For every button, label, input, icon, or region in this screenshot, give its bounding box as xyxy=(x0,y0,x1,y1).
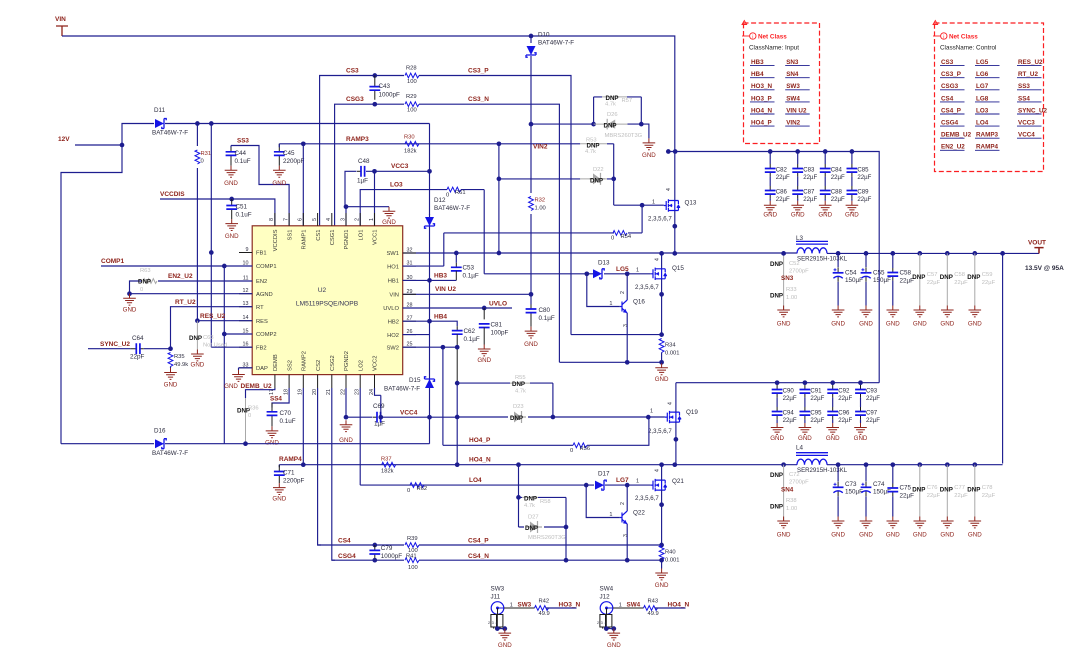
svg-text:R63: R63 xyxy=(140,268,151,274)
svg-text:D15: D15 xyxy=(409,377,421,384)
capacitor C85 xyxy=(851,152,853,165)
svg-text:1µF: 1µF xyxy=(357,178,368,185)
ground C63 branch xyxy=(191,350,204,361)
pin 21 CSG2 xyxy=(331,375,333,388)
ground C71 xyxy=(273,483,286,494)
svg-text:R62: R62 xyxy=(417,486,428,492)
svg-text:HO3_N: HO3_N xyxy=(559,601,581,608)
diode D15 xyxy=(425,379,434,388)
capacitor C58 xyxy=(892,253,894,268)
svg-text:HB4: HB4 xyxy=(434,314,447,321)
svg-text:GND: GND xyxy=(272,496,286,503)
svg-text:4: 4 xyxy=(668,402,674,405)
wire Q16 emitter xyxy=(626,313,628,362)
svg-text:VIN U2: VIN U2 xyxy=(435,286,456,293)
wire HO1 xyxy=(403,233,444,266)
diode D17 xyxy=(595,481,604,490)
svg-text:2200pF: 2200pF xyxy=(283,478,305,485)
wire CS3_N to R34 xyxy=(559,361,661,363)
svg-text:D26: D26 xyxy=(607,112,618,118)
svg-text:VOUT: VOUT xyxy=(1028,240,1046,247)
svg-text:R29: R29 xyxy=(406,94,417,100)
ground C77 branch xyxy=(941,517,954,528)
svg-text:C93: C93 xyxy=(866,388,878,395)
wire CSG2 to CSG4 xyxy=(332,388,335,560)
svg-text:RAMP4: RAMP4 xyxy=(279,456,302,463)
svg-text:1: 1 xyxy=(636,479,639,485)
svg-text:C97: C97 xyxy=(866,410,878,417)
svg-text:C95: C95 xyxy=(810,410,822,417)
svg-text:1: 1 xyxy=(650,409,653,415)
svg-text:GND: GND xyxy=(854,435,868,442)
svg-text:DNP: DNP xyxy=(138,279,151,286)
svg-text:22µF: 22µF xyxy=(927,493,941,499)
svg-text:D22: D22 xyxy=(593,167,604,173)
ground C72 branch xyxy=(777,517,790,528)
pin 5 CS1 xyxy=(317,213,319,226)
ground R34 xyxy=(655,363,668,374)
svg-text:2,3,5,6,7: 2,3,5,6,7 xyxy=(635,284,659,291)
svg-text:VCC3: VCC3 xyxy=(1018,120,1035,127)
pin 15 COMP2 xyxy=(239,333,252,335)
ground PGND2 xyxy=(340,420,353,431)
ground C76 branch xyxy=(914,517,927,528)
capacitor C44 xyxy=(230,146,232,166)
svg-text:GND: GND xyxy=(382,219,396,226)
svg-text:100: 100 xyxy=(407,108,417,114)
svg-text:C51: C51 xyxy=(236,204,248,211)
capacitor C48 xyxy=(357,170,365,172)
svg-text:CS4_P: CS4_P xyxy=(468,538,489,545)
ground D26 xyxy=(643,138,656,149)
wire VOUT tie to L4 output xyxy=(1002,253,1004,463)
wire RAMP2 to RAMP4 xyxy=(302,388,304,465)
svg-text:1: 1 xyxy=(510,603,513,609)
ground C44 xyxy=(225,166,238,177)
svg-text:C58: C58 xyxy=(954,272,965,278)
svg-text:4.7k: 4.7k xyxy=(524,503,535,509)
svg-text:GND: GND xyxy=(818,212,832,219)
svg-text:CS3_P: CS3_P xyxy=(941,71,961,78)
svg-text:GND: GND xyxy=(763,212,777,219)
wire VCC1 pin xyxy=(374,171,376,226)
ground C75 xyxy=(887,517,900,528)
capacitor C87 xyxy=(797,177,799,186)
svg-text:GND: GND xyxy=(655,376,669,383)
svg-text:Net Class: Net Class xyxy=(758,34,787,41)
svg-text:J11: J11 xyxy=(491,594,501,601)
capacitor C45 xyxy=(278,144,280,166)
svg-text:R57: R57 xyxy=(622,98,633,104)
ground C51 xyxy=(225,219,238,230)
svg-text:CSG3: CSG3 xyxy=(941,83,959,90)
svg-text:12V: 12V xyxy=(58,136,70,143)
DNP capacitor C58 xyxy=(946,253,948,305)
svg-text:R61: R61 xyxy=(455,190,466,196)
DNP capacitor C72 / SN4 / DNP R38 branch xyxy=(783,465,785,521)
wire Q13 drain xyxy=(674,152,676,201)
svg-text:C58: C58 xyxy=(900,270,912,277)
svg-text:32: 32 xyxy=(407,248,413,254)
svg-text:21: 21 xyxy=(326,389,332,395)
svg-text:C53: C53 xyxy=(463,265,475,272)
svg-text:C81: C81 xyxy=(491,322,503,329)
svg-text:C75: C75 xyxy=(900,485,912,492)
svg-text:4: 4 xyxy=(666,188,672,191)
svg-text:GND: GND xyxy=(826,435,840,442)
svg-text:22pF: 22pF xyxy=(130,354,145,361)
svg-text:SS1: SS1 xyxy=(287,230,293,241)
svg-text:VCC1: VCC1 xyxy=(373,230,379,245)
svg-text:DNP: DNP xyxy=(967,274,980,281)
svg-text:EN2_U2: EN2_U2 xyxy=(941,144,965,151)
svg-text:VCC4: VCC4 xyxy=(400,410,418,417)
svg-text:1000pF: 1000pF xyxy=(381,553,403,560)
svg-text:Q22: Q22 xyxy=(633,510,645,517)
diode D13 xyxy=(484,190,593,274)
svg-text:R28: R28 xyxy=(406,66,417,72)
net HO3_N xyxy=(546,607,577,609)
wire DEMB / DNP R36 xyxy=(246,388,275,398)
capacitor C54 xyxy=(837,253,839,267)
wire AGND xyxy=(130,293,253,295)
svg-text:22µF: 22µF xyxy=(838,395,852,402)
pin 4 CSG1 xyxy=(331,213,333,226)
svg-text:HB2: HB2 xyxy=(388,319,399,325)
pin 27 HB2 xyxy=(403,320,416,322)
DNP capacitor C57 xyxy=(919,253,921,305)
svg-text:3: 3 xyxy=(492,621,494,625)
diode D12 xyxy=(429,214,431,215)
svg-text:GND: GND xyxy=(642,152,656,159)
svg-text:C80: C80 xyxy=(539,307,551,314)
capacitor C81 xyxy=(483,308,485,319)
diode D16 xyxy=(155,439,164,448)
ground C52 branch xyxy=(777,306,790,317)
wire VOUT bus xyxy=(827,247,1039,253)
svg-text:LO3: LO3 xyxy=(390,182,403,189)
resistor R35 xyxy=(168,353,173,367)
wire PGND1 xyxy=(345,207,389,226)
resistor R62 xyxy=(410,483,424,488)
svg-text:VCC2: VCC2 xyxy=(373,356,379,371)
svg-text:R43: R43 xyxy=(648,598,659,604)
svg-text:24: 24 xyxy=(369,389,375,395)
capacitor C93 xyxy=(860,383,862,385)
svg-text:LG6: LG6 xyxy=(976,71,989,78)
capacitor C86 xyxy=(769,177,771,186)
svg-text:2: 2 xyxy=(620,291,626,294)
svg-text:ClassName: Input: ClassName: Input xyxy=(749,45,799,52)
svg-text:C45: C45 xyxy=(283,150,295,157)
svg-text:CS3: CS3 xyxy=(346,68,359,75)
svg-text:DNP: DNP xyxy=(912,487,925,494)
svg-text:GND: GND xyxy=(524,341,538,348)
svg-text:DNP: DNP xyxy=(770,504,783,511)
svg-text:C52: C52 xyxy=(789,261,800,267)
resistor R32 xyxy=(529,197,534,211)
svg-text:C79: C79 xyxy=(381,545,393,552)
svg-text:22µF: 22µF xyxy=(783,395,797,402)
wire L4 output bus xyxy=(827,464,1003,466)
svg-text:COMP1: COMP1 xyxy=(256,264,277,270)
svg-text:0.1uF: 0.1uF xyxy=(280,418,296,425)
svg-text:3: 3 xyxy=(340,218,346,221)
resistor R28 xyxy=(405,73,419,78)
svg-text:D11: D11 xyxy=(154,107,166,114)
svg-text:7: 7 xyxy=(283,218,289,221)
svg-text:SW3: SW3 xyxy=(518,602,532,609)
svg-text:19: 19 xyxy=(298,389,304,395)
svg-text:1: 1 xyxy=(652,200,655,206)
svg-text:DNP: DNP xyxy=(967,487,980,494)
svg-text:GND: GND xyxy=(770,435,784,442)
svg-text:R30: R30 xyxy=(404,135,415,141)
svg-text:LO3: LO3 xyxy=(976,107,989,114)
svg-text:SN3: SN3 xyxy=(786,59,799,66)
svg-text:RAMP4: RAMP4 xyxy=(976,144,999,151)
svg-text:HB3: HB3 xyxy=(434,273,447,280)
svg-text:GND: GND xyxy=(940,532,954,539)
svg-text:LO1: LO1 xyxy=(358,230,364,241)
svg-text:GND: GND xyxy=(777,321,791,328)
resistor R31 xyxy=(196,124,198,321)
capacitor C96 xyxy=(832,398,834,407)
svg-text:C89: C89 xyxy=(857,189,869,196)
svg-text:D27: D27 xyxy=(528,515,539,521)
svg-text:BAT46W-7-F: BAT46W-7-F xyxy=(434,205,470,212)
pin DAP ground xyxy=(239,368,253,370)
svg-text:DNP: DNP xyxy=(604,123,617,130)
svg-text:CSG4: CSG4 xyxy=(338,553,356,560)
DNP capacitor C52 / SN3 / DNP R33 branch xyxy=(783,253,785,310)
svg-text:VCCDIS: VCCDIS xyxy=(160,191,185,198)
DNP capacitor C76 xyxy=(919,465,921,517)
pin 25 SW2 xyxy=(403,346,416,348)
DNP diode D26 xyxy=(531,97,649,138)
pin 29 VIN xyxy=(403,293,416,295)
svg-text:1000pF: 1000pF xyxy=(379,92,401,99)
wire D27 to CS4_N xyxy=(565,527,567,560)
svg-text:R56: R56 xyxy=(580,446,591,452)
svg-text:2: 2 xyxy=(620,502,626,505)
wire CS2 to CS4 xyxy=(318,388,321,545)
svg-text:EN2: EN2 xyxy=(256,279,267,285)
wire COMP2 xyxy=(224,333,252,335)
svg-text:SS3: SS3 xyxy=(237,138,249,145)
svg-text:HO4_P: HO4_P xyxy=(751,120,772,127)
capacitor C55 xyxy=(865,253,867,267)
wire LO2 to LO4 xyxy=(359,388,361,485)
svg-text:8: 8 xyxy=(269,218,275,221)
svg-text:D23: D23 xyxy=(513,404,524,410)
wire VIN U2 xyxy=(403,293,531,295)
svg-text:RAMP1: RAMP1 xyxy=(302,230,308,250)
svg-text:4.7k: 4.7k xyxy=(515,389,526,395)
svg-text:C76: C76 xyxy=(927,485,938,491)
svg-text:MBRS260T3G: MBRS260T3G xyxy=(605,133,643,139)
svg-text:PGND2: PGND2 xyxy=(344,351,350,371)
svg-text:C78: C78 xyxy=(982,485,993,491)
resistor R61 xyxy=(447,187,461,192)
svg-text:i: i xyxy=(943,34,944,40)
svg-text:182k: 182k xyxy=(404,149,417,155)
inductor L4 xyxy=(797,459,827,465)
svg-text:22µF: 22µF xyxy=(982,280,996,286)
capacitor C89 xyxy=(851,177,853,186)
svg-text:C64: C64 xyxy=(132,335,144,342)
svg-text:LO4: LO4 xyxy=(469,477,482,484)
pin 24 VCC2 xyxy=(374,375,376,388)
svg-text:GND: GND xyxy=(224,383,238,390)
svg-text:GND: GND xyxy=(272,180,286,187)
svg-text:R32: R32 xyxy=(535,198,546,204)
resistor R56 xyxy=(573,443,587,448)
svg-text:22µF: 22µF xyxy=(831,196,845,203)
ground C54 xyxy=(832,306,845,317)
svg-text:GND: GND xyxy=(886,532,900,539)
svg-text:HO1: HO1 xyxy=(387,264,399,270)
resistor R40 xyxy=(659,546,664,560)
svg-text:13.5V @ 95A: 13.5V @ 95A xyxy=(1025,265,1064,272)
svg-text:DNP: DNP xyxy=(590,177,603,184)
ground C89 xyxy=(846,201,859,212)
svg-text:2,3,5,6,7: 2,3,5,6,7 xyxy=(648,216,672,223)
capacitor C92 xyxy=(832,383,834,385)
svg-text:22µF: 22µF xyxy=(954,280,968,286)
svg-text:C77: C77 xyxy=(954,485,965,491)
transistor Q19 xyxy=(665,411,681,423)
wire bottom rail xyxy=(61,443,430,445)
wire Q21 drain xyxy=(661,465,663,480)
pin 26 HO2 xyxy=(403,334,416,336)
svg-text:C74: C74 xyxy=(873,481,885,488)
svg-text:R38: R38 xyxy=(786,498,797,504)
ground C97 xyxy=(854,423,867,434)
pin 11 EN2 xyxy=(239,280,252,282)
svg-text:SS4: SS4 xyxy=(1018,95,1030,102)
svg-text:GND: GND xyxy=(831,532,845,539)
resistor R34 xyxy=(659,339,664,353)
connector J11 shield pins xyxy=(491,615,497,628)
svg-text:0: 0 xyxy=(248,413,251,419)
svg-text:0.001: 0.001 xyxy=(665,558,680,564)
ground PGND1 xyxy=(383,207,396,218)
svg-text:Net Class: Net Class xyxy=(949,34,978,41)
svg-text:LM5119PSQE/NOPB: LM5119PSQE/NOPB xyxy=(296,301,359,308)
DNP capacitor C77 xyxy=(946,465,948,517)
wire FB2 xyxy=(211,346,252,348)
svg-text:BAT46W-7-F: BAT46W-7-F xyxy=(384,386,420,393)
svg-text:RAMP3: RAMP3 xyxy=(346,136,369,143)
svg-text:VIN2: VIN2 xyxy=(533,144,548,151)
svg-text:0: 0 xyxy=(570,448,573,454)
svg-text:22µF: 22µF xyxy=(982,493,996,499)
DNP capacitor C78 xyxy=(974,465,976,517)
capacitor C74 xyxy=(865,465,867,482)
DNP diode D27 xyxy=(519,526,567,528)
wire 12V left rail xyxy=(61,145,122,444)
svg-text:GND: GND xyxy=(968,321,982,328)
svg-text:CS4_P: CS4_P xyxy=(941,107,961,114)
svg-text:1µF: 1µF xyxy=(374,421,385,428)
wire Q21 source xyxy=(661,490,663,545)
wire J11 pin 1 xyxy=(504,607,535,609)
svg-text:C92: C92 xyxy=(838,388,850,395)
svg-text:COMP2: COMP2 xyxy=(256,332,277,338)
svg-text:EN2_U2: EN2_U2 xyxy=(168,273,193,280)
svg-text:182k: 182k xyxy=(381,469,394,475)
capacitor C53 xyxy=(455,253,457,263)
pin 33 DAP xyxy=(239,367,252,369)
svg-text:DEMB_U2: DEMB_U2 xyxy=(241,383,272,390)
svg-text:GND: GND xyxy=(164,382,178,389)
svg-text:R40: R40 xyxy=(665,550,676,556)
resistor R42 xyxy=(535,606,549,611)
svg-text:2700pF: 2700pF xyxy=(789,269,809,275)
svg-text:C73: C73 xyxy=(845,481,857,488)
capacitor C80 xyxy=(530,294,532,304)
DNP capacitor C59 xyxy=(974,253,976,305)
svg-text:CS3: CS3 xyxy=(941,59,954,66)
ground C88 xyxy=(819,201,832,212)
wire 12V to D11 xyxy=(122,124,154,146)
capacitor C90 xyxy=(776,383,778,385)
svg-text:SW4: SW4 xyxy=(786,95,800,102)
pin 7 SS1 xyxy=(288,213,290,226)
DNP resistor R53 xyxy=(607,144,614,205)
svg-text:AGND: AGND xyxy=(256,292,273,298)
resistor R41 xyxy=(405,558,419,563)
svg-text:20: 20 xyxy=(312,389,318,395)
svg-text:0.1uF: 0.1uF xyxy=(235,158,251,165)
svg-text:C62: C62 xyxy=(464,328,476,335)
wire Q15 source xyxy=(661,279,663,335)
svg-text:0.001: 0.001 xyxy=(665,351,680,357)
ground C58 branch xyxy=(941,306,954,317)
svg-text:C59: C59 xyxy=(982,272,993,278)
svg-text:VIN2: VIN2 xyxy=(786,120,800,127)
resistor R30 xyxy=(405,141,419,146)
svg-text:GND: GND xyxy=(859,532,873,539)
svg-text:2: 2 xyxy=(488,621,490,625)
svg-text:2700pF: 2700pF xyxy=(789,480,809,486)
svg-text:0.1µF: 0.1µF xyxy=(539,315,555,322)
pin 32 SW1 xyxy=(403,252,416,254)
svg-text:22µF: 22µF xyxy=(803,196,817,203)
ground J11 xyxy=(499,629,512,640)
svg-text:U2: U2 xyxy=(318,287,327,294)
DNP resistor R58 xyxy=(519,465,567,527)
resistor R29 xyxy=(405,102,419,107)
ground R35 xyxy=(164,368,177,379)
resistor R43 xyxy=(644,606,658,611)
svg-text:GND: GND xyxy=(913,321,927,328)
svg-text:6: 6 xyxy=(298,218,304,221)
net HO4_N xyxy=(655,607,686,609)
ground C80 xyxy=(525,327,538,338)
svg-text:4.7k: 4.7k xyxy=(585,149,596,155)
svg-text:CS3_N: CS3_N xyxy=(468,96,489,103)
svg-text:C54: C54 xyxy=(845,270,857,277)
pin 30 HB1 xyxy=(403,279,416,281)
svg-text:LG7: LG7 xyxy=(976,83,989,90)
svg-text:PGND1: PGND1 xyxy=(344,230,350,250)
wire Q19 source xyxy=(675,422,677,465)
svg-text:GND: GND xyxy=(845,212,859,219)
svg-text:22µF: 22µF xyxy=(866,417,880,424)
net class box Input xyxy=(744,23,820,144)
